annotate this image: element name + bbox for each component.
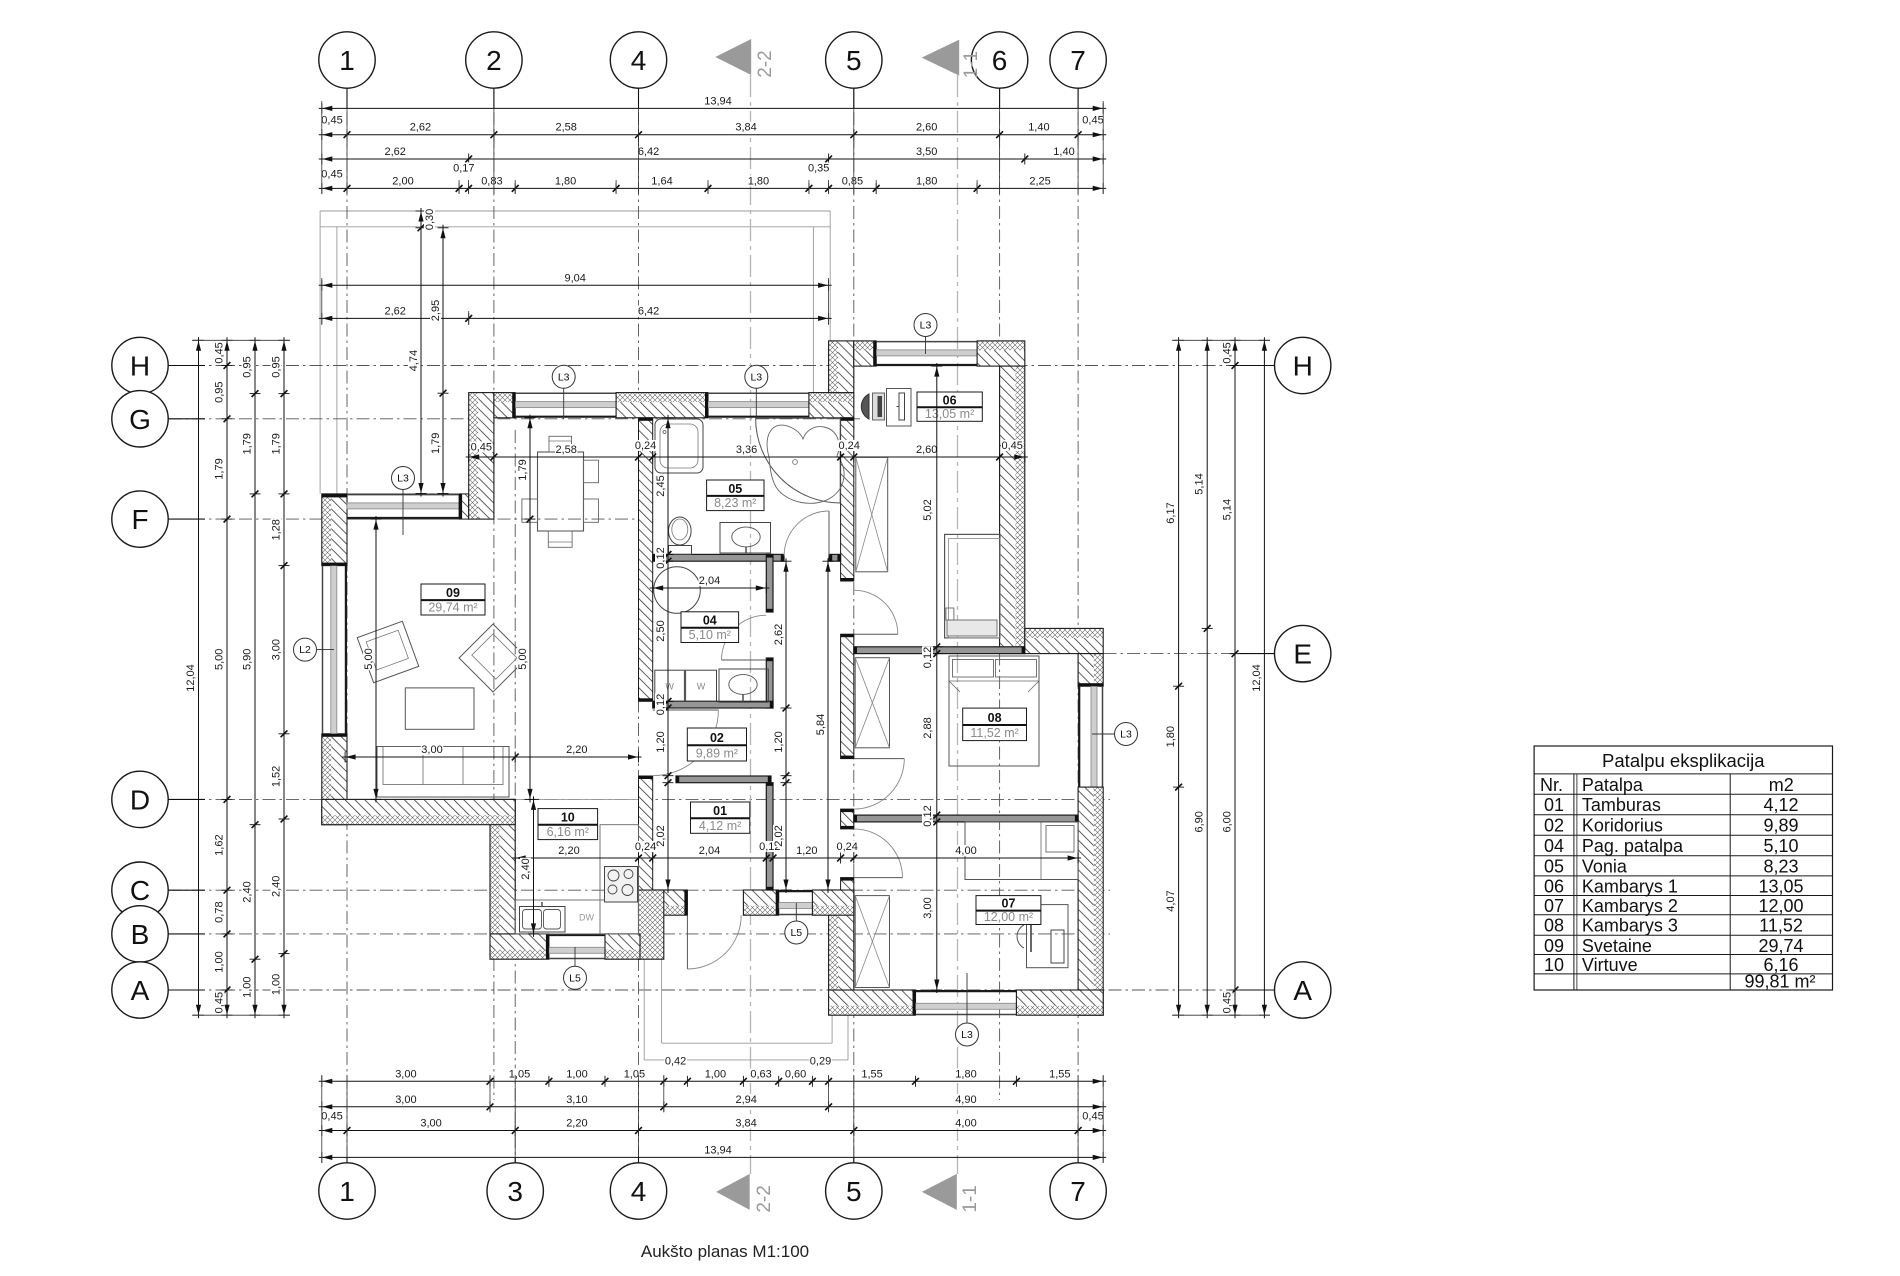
svg-text:3,00: 3,00 — [922, 897, 934, 918]
svg-text:2,40: 2,40 — [242, 881, 254, 902]
exterior wall south-B piece 2 — [743, 890, 778, 915]
svg-text:1,55: 1,55 — [861, 1068, 882, 1080]
dimension column right grid — [1222, 337, 1241, 1018]
interior wall grid 4 lower — [639, 776, 653, 890]
interior dimension column rooms 06-08-07 — [922, 363, 942, 993]
room 04 toilet — [654, 567, 701, 614]
svg-text:4,00: 4,00 — [955, 845, 976, 857]
svg-text:0,95: 0,95 — [271, 356, 283, 377]
svg-text:6,90: 6,90 — [1194, 811, 1206, 832]
svg-text:0,35: 0,35 — [808, 163, 829, 175]
svg-text:2,58: 2,58 — [555, 122, 576, 134]
svg-text:D: D — [130, 784, 150, 815]
room label 05 Vonia — [707, 480, 764, 511]
svg-text:6: 6 — [992, 45, 1008, 76]
svg-text:Kambarys 1: Kambarys 1 — [1582, 877, 1678, 897]
interior dimension corridor length — [815, 558, 834, 893]
window L5 south kitchen — [549, 935, 605, 959]
room label 09 Svetaine — [421, 584, 485, 615]
svg-text:5,10: 5,10 — [1763, 836, 1798, 856]
grid line 2 — [493, 89, 495, 1101]
dimension column left envelope — [242, 337, 261, 1018]
svg-text:0,12: 0,12 — [655, 694, 667, 715]
exterior wall north-C piece 1 — [854, 341, 876, 366]
svg-text:06: 06 — [943, 393, 957, 407]
svg-text:04: 04 — [1544, 836, 1564, 856]
svg-text:1,79: 1,79 — [214, 458, 226, 479]
grid bubble 4 bottom — [610, 1157, 666, 1219]
grid line F — [169, 518, 651, 520]
svg-text:0,12: 0,12 — [922, 805, 934, 826]
partition bath south piece 2 — [829, 554, 841, 561]
room label 06 — [917, 392, 982, 421]
svg-text:0,45: 0,45 — [471, 442, 492, 454]
window L3 north room 06 — [876, 342, 977, 365]
dimension column right openings — [1165, 337, 1184, 1018]
room label 01 Tamburas — [691, 802, 750, 833]
grid bubble 4 top — [610, 32, 666, 109]
svg-text:6,16 m²: 6,16 m² — [547, 825, 589, 839]
exterior wall south-C piece 1 — [829, 990, 916, 1015]
svg-text:2: 2 — [486, 45, 502, 76]
grid line 1 — [346, 89, 348, 1163]
bath toilet — [669, 517, 692, 554]
svg-text:2,04: 2,04 — [699, 845, 720, 857]
svg-text:A: A — [131, 975, 150, 1006]
grid bubble 1 top — [319, 32, 375, 109]
svg-text:1,79: 1,79 — [430, 433, 442, 454]
window L2 west — [323, 566, 346, 734]
grid bubble 5 bottom — [826, 1157, 882, 1219]
exterior wall east of room 06 — [1000, 366, 1025, 653]
svg-text:1,05: 1,05 — [509, 1068, 530, 1080]
svg-text:0,30: 0,30 — [424, 209, 436, 230]
exterior wall south of living room — [322, 799, 515, 824]
svg-text:4: 4 — [631, 45, 647, 76]
section marker 2-2 bottom — [716, 1174, 775, 1213]
interior wall grid 4 upper — [639, 418, 653, 702]
svg-text:0,85: 0,85 — [842, 175, 863, 187]
grid bubble 1 bottom — [319, 1157, 375, 1219]
svg-text:Koridorius: Koridorius — [1582, 815, 1663, 835]
room 08 wardrobe — [855, 658, 889, 748]
exterior wall east piece 2 — [1078, 787, 1103, 1015]
marker L3 window room 07 — [956, 973, 979, 1046]
room label 02 Koridorius — [687, 728, 746, 761]
door to bathroom 05 — [784, 511, 829, 556]
svg-text:Kambarys 2: Kambarys 2 — [1582, 896, 1678, 916]
grid bubble 2 top — [466, 32, 522, 109]
partition rooms 08-07 — [854, 815, 1078, 822]
roof eave outline — [320, 211, 830, 494]
svg-text:99,81 m²: 99,81 m² — [1744, 972, 1815, 992]
svg-text:29,74: 29,74 — [1758, 936, 1803, 956]
interior dimension room 04 — [650, 575, 770, 594]
svg-text:0,12: 0,12 — [922, 647, 934, 668]
svg-text:Aukšto planas M1:100: Aukšto planas M1:100 — [641, 1242, 809, 1261]
svg-text:L5: L5 — [569, 972, 581, 984]
svg-text:0,45: 0,45 — [321, 1111, 342, 1123]
svg-text:11,52 m²: 11,52 m² — [970, 726, 1018, 740]
grid bubble D left — [112, 771, 205, 827]
svg-text:2,00: 2,00 — [392, 175, 413, 187]
svg-text:1,20: 1,20 — [655, 731, 667, 752]
svg-text:3,00: 3,00 — [420, 1118, 441, 1130]
svg-text:09: 09 — [1544, 936, 1564, 956]
dimension row 2.62 6.42 — [319, 305, 832, 324]
bath corner tub — [756, 418, 844, 503]
svg-text:0,60: 0,60 — [785, 1068, 806, 1080]
svg-text:0,12: 0,12 — [655, 547, 667, 568]
svg-text:0,83: 0,83 — [481, 175, 502, 187]
grid line 7 — [1077, 89, 1079, 1163]
svg-text:2,95: 2,95 — [430, 300, 442, 321]
svg-text:2,25: 2,25 — [1029, 175, 1050, 187]
svg-text:08: 08 — [1544, 915, 1564, 935]
svg-text:0,45: 0,45 — [1222, 992, 1234, 1013]
kitchen counter — [515, 825, 638, 934]
svg-text:05: 05 — [1544, 856, 1564, 876]
svg-text:1,00: 1,00 — [271, 974, 283, 995]
svg-text:5,14: 5,14 — [1222, 499, 1234, 520]
svg-text:5: 5 — [846, 1176, 862, 1207]
interior dimension kitchen height — [520, 796, 539, 937]
svg-text:2,20: 2,20 — [566, 744, 587, 756]
svg-text:01: 01 — [713, 804, 727, 818]
svg-text:5: 5 — [846, 45, 862, 76]
svg-text:DW: DW — [579, 913, 594, 923]
section marker 2-2 top — [715, 39, 776, 78]
grid bubble A left — [112, 962, 205, 1018]
dimension column left openings — [271, 337, 290, 1018]
svg-text:4: 4 — [631, 1176, 647, 1207]
svg-text:2,62: 2,62 — [384, 305, 405, 317]
svg-text:0,63: 0,63 — [750, 1068, 771, 1080]
svg-text:Patalpa: Patalpa — [1582, 775, 1644, 795]
svg-text:02: 02 — [710, 731, 724, 745]
interior dimension living height 1 — [363, 516, 382, 802]
interior dimension column rooms 05-04-02-01 — [655, 415, 674, 893]
svg-text:1,79: 1,79 — [242, 433, 254, 454]
svg-text:4,74: 4,74 — [408, 350, 420, 371]
svg-text:0,45: 0,45 — [321, 115, 342, 127]
vertical dimension eave chain 1 — [408, 208, 436, 497]
svg-text:1,00: 1,00 — [214, 951, 226, 972]
dimension row top grid spacing — [319, 115, 1106, 141]
svg-text:0,45: 0,45 — [1222, 342, 1234, 363]
svg-text:L3: L3 — [1120, 729, 1132, 741]
svg-text:6,42: 6,42 — [638, 146, 659, 158]
room 07 wardrobe — [855, 896, 889, 988]
grid bubble C left — [112, 862, 205, 918]
room 06 wardrobe — [856, 457, 888, 572]
door to room 04 — [722, 615, 767, 660]
grid line B — [169, 933, 1111, 935]
svg-text:3,00: 3,00 — [395, 1094, 416, 1106]
door corridor to living room — [653, 710, 719, 776]
dimension row bottom openings — [319, 1056, 1106, 1087]
window L3 north kitchen — [515, 393, 616, 416]
overall dimension top 13.94 — [319, 95, 1106, 114]
svg-text:1: 1 — [339, 45, 355, 76]
partition room 04 south — [653, 701, 773, 708]
svg-text:0,24: 0,24 — [635, 841, 656, 853]
grid line 3 — [514, 430, 516, 1163]
room boundary kitchen-living — [515, 798, 638, 800]
svg-text:C: C — [130, 875, 150, 906]
svg-text:0,24: 0,24 — [838, 440, 859, 452]
grid bubble 6 top — [971, 32, 1027, 109]
marker L3 window room 08 — [1092, 723, 1138, 746]
grid line D — [169, 798, 1111, 800]
marker L3 window north-A — [392, 467, 415, 536]
svg-text:1,79: 1,79 — [271, 433, 283, 454]
extension lines right — [1172, 340, 1270, 1015]
room 04 wash basin upper — [720, 523, 771, 554]
svg-text:5,02: 5,02 — [922, 499, 934, 520]
section marker 1-1 bottom — [922, 1174, 981, 1213]
room 06 bed — [945, 534, 1000, 638]
svg-text:5,00: 5,00 — [517, 648, 529, 669]
svg-text:2,50: 2,50 — [655, 620, 667, 641]
dimension row bottom segments — [319, 1094, 1106, 1113]
svg-text:3,10: 3,10 — [566, 1094, 587, 1106]
svg-text:2,62: 2,62 — [384, 146, 405, 158]
exterior wall south-A piece 1 — [490, 934, 549, 959]
dimension row top openings — [319, 163, 1106, 194]
door to room 06 — [854, 590, 898, 634]
svg-text:2,62: 2,62 — [410, 122, 431, 134]
svg-text:0,45: 0,45 — [1001, 440, 1022, 452]
marker L5 window entry south — [785, 903, 808, 944]
svg-text:H: H — [130, 351, 150, 382]
svg-text:2,20: 2,20 — [558, 845, 579, 857]
window L5 south entry — [779, 891, 813, 914]
svg-text:4,90: 4,90 — [955, 1094, 976, 1106]
grid bubble F left — [112, 491, 205, 547]
svg-text:9,04: 9,04 — [564, 272, 585, 284]
interior dimension row middle — [512, 841, 1081, 864]
svg-text:L5: L5 — [790, 927, 802, 939]
grid line C — [169, 889, 1111, 891]
marker L3 window room 06 — [914, 314, 937, 355]
svg-text:Virtuve: Virtuve — [1582, 955, 1638, 975]
svg-text:0,78: 0,78 — [214, 901, 226, 922]
svg-text:3,00: 3,00 — [271, 639, 283, 660]
svg-text:13,94: 13,94 — [704, 95, 732, 107]
marker L5 window kitchen south — [564, 947, 587, 989]
svg-text:4,12: 4,12 — [1763, 795, 1798, 815]
room 07 desk and computer — [1017, 905, 1068, 968]
svg-text:F: F — [131, 504, 148, 535]
marker L2 window west — [294, 638, 335, 661]
window L3 north bath — [708, 393, 809, 416]
svg-text:2,20: 2,20 — [566, 1118, 587, 1130]
grid bubble E right — [1240, 625, 1331, 681]
coffee table — [405, 688, 474, 729]
svg-text:13,05: 13,05 — [1758, 877, 1803, 897]
interior dimension column corridor — [773, 558, 792, 893]
entry door opening — [684, 890, 687, 915]
svg-text:12,04: 12,04 — [185, 664, 197, 692]
exterior wall west lower piece — [322, 734, 347, 825]
svg-text:3: 3 — [507, 1176, 523, 1207]
svg-text:0,24: 0,24 — [836, 841, 857, 853]
svg-text:8,23 m²: 8,23 m² — [714, 496, 756, 510]
svg-text:02: 02 — [1544, 815, 1564, 835]
svg-text:1-1: 1-1 — [961, 51, 982, 78]
dimension 9.04 roof — [319, 272, 832, 291]
svg-text:1,20: 1,20 — [796, 845, 817, 857]
kitchen hob — [605, 867, 638, 903]
svg-text:1,00: 1,00 — [242, 976, 254, 997]
dimension column right envelope — [1194, 337, 1213, 1018]
grid bubble H left — [112, 337, 205, 393]
sofa — [377, 747, 509, 798]
svg-text:1,05: 1,05 — [624, 1068, 645, 1080]
window L3 north-A — [347, 495, 459, 518]
svg-text:Tamburas: Tamburas — [1582, 795, 1661, 815]
kitchen sink — [520, 902, 566, 932]
svg-text:5,14: 5,14 — [1194, 473, 1206, 494]
grid bubble A right — [1240, 962, 1331, 1018]
svg-text:08: 08 — [988, 711, 1002, 725]
overall dimension bottom 13.94 — [319, 1144, 1106, 1163]
section line 2-2 — [750, 75, 752, 1174]
svg-text:1-1: 1-1 — [960, 1185, 981, 1212]
svg-text:G: G — [129, 404, 151, 435]
dimension row bottom grid — [319, 1111, 1106, 1137]
grid line 5 — [853, 89, 855, 1163]
svg-text:1,80: 1,80 — [748, 175, 769, 187]
grid line E — [845, 653, 1274, 655]
room label 08 — [963, 708, 1027, 741]
wall piece north-A — [459, 494, 469, 519]
svg-text:L3: L3 — [558, 371, 570, 383]
dimension column left grid — [214, 337, 233, 1018]
svg-text:5,00: 5,00 — [214, 649, 226, 670]
svg-text:5,00: 5,00 — [363, 648, 375, 669]
svg-text:1,80: 1,80 — [555, 175, 576, 187]
svg-text:2,04: 2,04 — [699, 575, 720, 587]
svg-text:E: E — [1293, 639, 1312, 670]
svg-text:10: 10 — [1544, 955, 1564, 975]
svg-text:1,40: 1,40 — [1053, 146, 1074, 158]
exterior wall step at row E — [1025, 628, 1103, 653]
svg-text:6,17: 6,17 — [1165, 502, 1177, 523]
svg-text:05: 05 — [728, 482, 742, 496]
interior dimension row living — [342, 744, 641, 763]
grid bubble B left — [112, 906, 205, 962]
svg-text:0,24: 0,24 — [635, 440, 656, 452]
svg-text:04: 04 — [703, 614, 717, 628]
svg-text:1,00: 1,00 — [566, 1068, 587, 1080]
svg-text:2,02: 2,02 — [773, 825, 785, 846]
svg-text:06: 06 — [1544, 877, 1564, 897]
svg-text:9,89: 9,89 — [1763, 815, 1798, 835]
svg-text:Kambarys 3: Kambarys 3 — [1582, 915, 1678, 935]
svg-text:H: H — [1293, 351, 1313, 382]
grid line 6 — [999, 89, 1001, 1101]
svg-text:1,64: 1,64 — [651, 175, 672, 187]
exterior wall east piece 1 — [1078, 654, 1103, 687]
svg-text:8,23: 8,23 — [1763, 856, 1798, 876]
exterior wall west of room 06 — [829, 341, 854, 393]
svg-text:1,80: 1,80 — [916, 175, 937, 187]
svg-text:0,45: 0,45 — [1082, 1111, 1103, 1123]
armchair 2 — [459, 624, 527, 692]
svg-text:2,40: 2,40 — [520, 858, 532, 879]
svg-text:13,94: 13,94 — [704, 1144, 732, 1156]
grid bubble H right — [1240, 337, 1331, 393]
door to room 08 — [854, 759, 905, 810]
grid line A — [169, 989, 1275, 991]
svg-text:5,84: 5,84 — [815, 714, 827, 735]
svg-text:Patalpu eksplikacija: Patalpu eksplikacija — [1602, 750, 1765, 771]
svg-text:Vonia: Vonia — [1582, 856, 1628, 876]
svg-text:12,00 m²: 12,00 m² — [984, 910, 1033, 924]
svg-text:07: 07 — [1544, 896, 1564, 916]
dining table — [522, 436, 599, 547]
svg-text:W: W — [665, 681, 674, 691]
extension lines bottom — [322, 1075, 1103, 1163]
svg-text:0,45: 0,45 — [214, 342, 226, 363]
overall dimension right 12.04 — [1251, 337, 1270, 1018]
svg-text:10: 10 — [561, 811, 575, 825]
exterior wall north-C piece 2 — [977, 341, 1025, 366]
svg-text:0,95: 0,95 — [214, 381, 226, 402]
svg-text:9,89 m²: 9,89 m² — [696, 747, 738, 761]
marker L3 window kitchen north — [552, 365, 575, 419]
window jamb lines north-A — [347, 493, 459, 495]
partition room 04 east piece 2 — [766, 658, 773, 708]
section marker 1-1 top — [922, 40, 982, 79]
room 06 desk and chair — [861, 389, 911, 427]
svg-text:2,02: 2,02 — [655, 825, 667, 846]
svg-text:12,04: 12,04 — [1251, 664, 1263, 692]
room label 10 Virtuve — [538, 809, 598, 840]
grid bubble 3 bottom — [487, 1157, 543, 1219]
svg-text:07: 07 — [1002, 897, 1016, 911]
svg-text:Svetaine: Svetaine — [1582, 936, 1652, 956]
svg-text:6,42: 6,42 — [638, 305, 659, 317]
interior wall corridor east piece 3 — [841, 809, 854, 829]
room label 07 — [976, 896, 1041, 925]
svg-text:Nr.: Nr. — [1540, 775, 1563, 795]
svg-text:01: 01 — [1544, 795, 1564, 815]
svg-text:2-2: 2-2 — [755, 50, 776, 77]
exterior wall north-B piece 1 — [494, 393, 515, 418]
room 04 wash basin lower — [719, 669, 768, 702]
svg-text:3,36: 3,36 — [736, 444, 757, 456]
svg-text:2,58: 2,58 — [555, 444, 576, 456]
exterior wall north-B piece 2 — [616, 393, 708, 418]
partition room 04 east piece 1 — [766, 554, 773, 612]
svg-text:0,29: 0,29 — [810, 1056, 831, 1068]
svg-text:13,05 m²: 13,05 m² — [925, 407, 974, 421]
svg-text:2,40: 2,40 — [271, 876, 283, 897]
svg-text:1,79: 1,79 — [517, 459, 529, 480]
svg-text:4,00: 4,00 — [955, 1118, 976, 1130]
svg-text:1,20: 1,20 — [773, 731, 785, 752]
svg-text:5,10 m²: 5,10 m² — [689, 628, 731, 642]
room label 04 — [681, 612, 739, 643]
grid line 4 — [638, 89, 640, 1163]
svg-text:29,74 m²: 29,74 m² — [428, 601, 477, 615]
svg-text:B: B — [131, 919, 150, 950]
svg-text:4,12 m²: 4,12 m² — [699, 819, 741, 833]
room 08 double bed — [949, 656, 1039, 766]
